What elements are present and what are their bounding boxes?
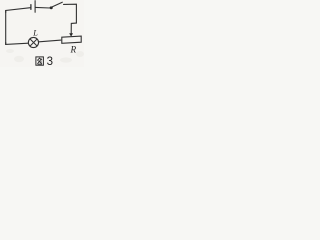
slider arrow onto rheostat: [69, 33, 73, 36]
wire lamp to resistor: [39, 40, 61, 42]
wire jog left: [71, 23, 76, 33]
wire switch fixed contact to top-right corner: [64, 4, 77, 23]
caption character 图 (drawn): [36, 57, 44, 65]
battery cell: short plate (negative): [30, 5, 32, 10]
svg-text:R: R: [70, 45, 77, 55]
switch pivot dot: [50, 6, 53, 9]
wire left vertical: [5, 11, 7, 45]
wire battery to switch: [36, 6, 50, 9]
lamp L: cross: [30, 39, 37, 46]
lamp L: circle: [28, 37, 38, 47]
faint scan smudges: [6, 49, 84, 63]
wire bottom-left (corner to lamp): [6, 43, 29, 45]
svg-text:L: L: [32, 29, 38, 38]
wire top-left (corner to battery minus plate): [6, 8, 31, 13]
paper background: [0, 0, 84, 67]
resistor R box (rheostat body): [62, 36, 81, 43]
switch blade (open): [52, 2, 62, 7]
battery cell: long plate (positive): [34, 1, 36, 13]
svg-text:3: 3: [47, 56, 53, 67]
